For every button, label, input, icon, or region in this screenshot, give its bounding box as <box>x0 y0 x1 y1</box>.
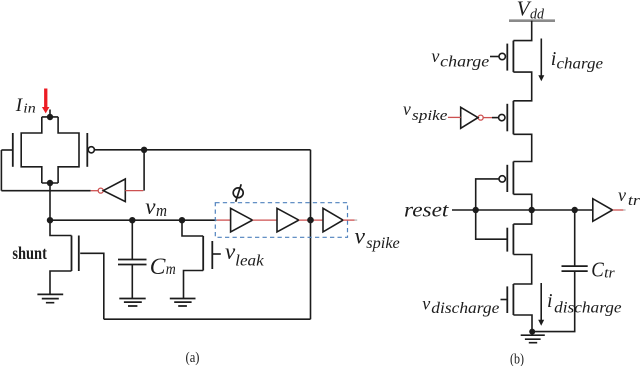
wire bottom node to vm rail <box>49 183 51 220</box>
label vtr <box>618 185 640 209</box>
transistor M3 source lead <box>50 271 72 294</box>
wire inverter input vertical <box>143 150 145 191</box>
svg-text:(b): (b) <box>510 351 524 366</box>
inverter U5 bubble (red) <box>478 115 483 120</box>
wire Q3 drain to reset node <box>513 194 531 210</box>
transistor M4 leak: drain lead <box>182 220 203 236</box>
wire red chain segment 3 <box>299 219 323 221</box>
svg-text:v: v <box>431 46 439 66</box>
wire M1 gate lead <box>1 149 12 151</box>
svg-text:v: v <box>422 293 430 313</box>
node bottom of transistor pair <box>47 180 53 186</box>
wire red inverter input segment <box>125 190 143 192</box>
node reset-stack junction <box>529 207 535 213</box>
capacitor Cm bottom lead <box>131 265 133 299</box>
wire red chain segment 2 <box>253 219 278 221</box>
wire Q5 source to ground <box>513 315 532 332</box>
wire vcharge lead <box>490 56 499 58</box>
wire red vspike output <box>343 219 354 221</box>
wire Ctr top lead <box>574 210 576 266</box>
transistor Q1 gate bar <box>506 44 508 71</box>
node vm-shunt junction <box>47 217 53 223</box>
transistor Q3 gate bubble <box>499 176 505 182</box>
node reset-gate junction <box>473 207 479 213</box>
transistor M1 gate bar (left, NMOS) <box>12 133 14 167</box>
label vleak <box>225 239 265 269</box>
buffer U4 <box>323 208 343 232</box>
svg-text:in: in <box>23 101 36 116</box>
wire feedback bottom run <box>104 318 311 320</box>
transistor M3 shunt: drain lead <box>50 220 72 235</box>
svg-text:tr: tr <box>604 265 615 281</box>
label phi <box>233 184 243 202</box>
wire idischarge arrow <box>540 283 542 320</box>
wire inverter to gate <box>492 117 499 119</box>
buffer U6 <box>593 199 613 222</box>
transistor pair M1/M2 shared-channel cross outline <box>21 117 79 183</box>
inverter U1 output bubble (red) <box>98 188 103 193</box>
transistor Q5 channel bar <box>512 284 514 315</box>
node Ctr tap junction <box>572 207 578 213</box>
node feedback junction <box>141 147 147 153</box>
svg-text:v: v <box>403 99 411 119</box>
wire vm rail <box>50 219 217 221</box>
wire gray stub <box>355 219 358 221</box>
wire feedback vertical <box>310 150 312 319</box>
transistor Q1 gate bubble <box>499 53 505 59</box>
svg-text:m: m <box>166 261 176 278</box>
capacitor Cm top lead <box>131 220 133 259</box>
svg-text:discharge: discharge <box>554 300 622 317</box>
label Cm <box>150 254 176 280</box>
transistor Q5 gate bar <box>506 286 508 313</box>
svg-text:reset: reset <box>404 199 449 221</box>
wire vdischarge gate lead <box>501 299 508 301</box>
transistor Q3 gate bar <box>506 165 508 192</box>
wire Q1 to Q2 <box>513 72 531 101</box>
wire Vdd to Q1 <box>513 21 531 41</box>
transistor Q3 channel bar <box>512 162 514 195</box>
power rail Vdd <box>509 19 555 22</box>
label vdischarge <box>422 293 499 317</box>
wire shunt gate riser <box>80 253 104 319</box>
inverter U5 <box>461 107 478 128</box>
svg-text:v: v <box>355 223 366 249</box>
transistor Q2 channel bar <box>512 101 514 135</box>
node Iin (top node dot) <box>47 114 53 120</box>
transistor M2 gate bar (right, PMOS) <box>86 133 88 167</box>
svg-text:shunt: shunt <box>12 243 47 263</box>
transistor Q4 channel bar <box>512 224 514 254</box>
svg-text:C: C <box>150 254 166 280</box>
node Cm junction <box>129 217 135 223</box>
svg-text:C: C <box>591 258 604 282</box>
transistor Q2 gate bar <box>506 104 508 132</box>
capacitor Ctr bottom lead <box>532 271 575 332</box>
svg-text:spike: spike <box>366 235 400 252</box>
wire Q4 to Q5 <box>513 255 531 285</box>
transistor M3 channel bar <box>71 236 73 272</box>
svg-text:leak: leak <box>235 252 265 269</box>
node feedback tap <box>307 217 314 224</box>
svg-text:discharge: discharge <box>431 300 499 317</box>
wire reset to Q4 gate <box>476 210 508 239</box>
ground under Cm <box>119 299 145 307</box>
transistor M4 channel bar <box>202 236 204 271</box>
svg-text:v: v <box>618 185 626 205</box>
wire red vspike to inverter <box>448 116 461 118</box>
ground under leak transistor <box>170 299 196 307</box>
wire Q3 gate to reset <box>476 179 499 210</box>
svg-text:i: i <box>547 290 553 312</box>
node vleak junction <box>179 217 185 223</box>
svg-text:m: m <box>156 201 167 220</box>
ground (b) <box>521 335 545 343</box>
node ground junction <box>529 329 535 335</box>
label vcharge <box>431 46 489 71</box>
transistor Q1 channel bar <box>512 41 514 73</box>
svg-text:tr: tr <box>628 193 640 209</box>
wire red chain segment 1 <box>217 219 231 221</box>
dashed selection box <box>215 203 347 238</box>
svg-text:charge: charge <box>557 56 604 73</box>
transistor Q2 gate bubble <box>499 114 505 120</box>
transistor M4 source lead <box>184 271 204 299</box>
label Vdd <box>517 0 545 23</box>
svg-text:(a): (a) <box>186 350 200 366</box>
buffer U3 <box>277 208 299 232</box>
wire red segment into inverter bubble <box>91 190 99 192</box>
transistor M3 gate bar <box>78 236 80 272</box>
capacitor Cm plates <box>118 260 147 265</box>
ground under shunt <box>37 294 63 302</box>
capacitor Ctr plates <box>562 266 588 271</box>
wire reset line <box>452 209 593 211</box>
wire M2 gate feedback line <box>94 149 310 151</box>
label vspike (a) <box>355 223 400 251</box>
wire Q2 to Q3 <box>513 134 531 161</box>
label I_in <box>15 95 36 116</box>
buffer U2 <box>231 208 253 232</box>
label Ctr <box>591 258 615 282</box>
svg-text:charge: charge <box>440 54 489 71</box>
label icharge <box>551 48 603 72</box>
svg-text:spike: spike <box>412 108 448 124</box>
wire reset node to Q4 drain <box>513 210 531 224</box>
inverter U1 (left-pointing triangle) <box>103 179 125 202</box>
wire left vertical (gate to inverter output) <box>0 150 2 191</box>
label vm <box>145 194 167 220</box>
wire vleak gate lead <box>212 253 221 255</box>
input current red arrow <box>42 89 50 114</box>
label idischarge <box>547 290 622 317</box>
transistor M2 gate bubble <box>88 147 94 153</box>
svg-text:v: v <box>145 194 156 219</box>
label vspike (b) <box>403 99 448 124</box>
wire red from inverter bubble <box>483 117 492 119</box>
wire gray stub vtr <box>623 209 625 211</box>
wire inverter output run <box>1 190 90 192</box>
wire icharge arrow <box>540 39 542 77</box>
transistor Q4 gate bar <box>506 228 508 252</box>
transistor M4 gate bar <box>211 241 213 269</box>
wire stub above top node <box>49 110 51 118</box>
wire red vtr output <box>613 209 624 211</box>
